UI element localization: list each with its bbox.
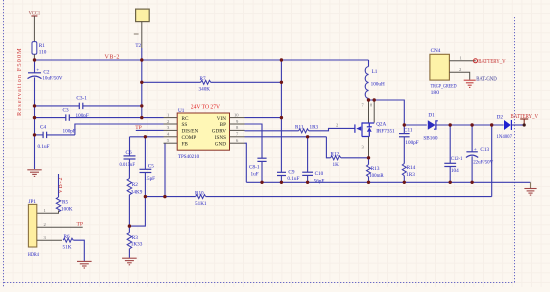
capacitor C11 xyxy=(399,125,419,164)
svg-text:R14: R14 xyxy=(407,165,416,171)
resistor R12 xyxy=(326,137,368,168)
U1 pins left 1-5 xyxy=(164,118,178,144)
svg-text:GND: GND xyxy=(215,141,226,147)
svg-text:BP: BP xyxy=(220,122,226,128)
svg-text:C4: C4 xyxy=(40,124,46,130)
resistor R1 xyxy=(32,42,47,60)
diode D1 SB160 xyxy=(404,113,503,142)
svg-text:HDR4: HDR4 xyxy=(28,252,39,258)
inductor L1 xyxy=(365,60,385,100)
wire pin7 ISNS xyxy=(245,136,327,138)
svg-text:+: + xyxy=(474,147,477,153)
svg-text:TP: TP xyxy=(135,125,142,131)
resistor R14 xyxy=(402,164,415,183)
svg-text:D2: D2 xyxy=(497,114,504,120)
capacitor C12-1 xyxy=(444,125,462,182)
svg-text:T2: T2 xyxy=(135,43,141,49)
svg-text:RC: RC xyxy=(182,116,189,122)
resistor R6 xyxy=(63,234,85,261)
sheet border dotted bottom xyxy=(4,282,515,284)
svg-text:R3: R3 xyxy=(132,235,138,241)
svg-text:180: 180 xyxy=(431,90,440,96)
ground rail end symbol xyxy=(524,182,536,195)
svg-text:CN4: CN4 xyxy=(431,48,441,54)
capacitor C10 xyxy=(302,137,324,185)
capacitor C2 xyxy=(28,60,63,106)
svg-text:51K1: 51K1 xyxy=(195,201,207,207)
svg-text:TRGP_GREED: TRGP_GREED xyxy=(431,83,457,89)
svg-text:1R3: 1R3 xyxy=(406,172,415,178)
svg-text:C5: C5 xyxy=(148,163,154,169)
wire switch node row xyxy=(369,100,405,125)
svg-text:COMP: COMP xyxy=(182,135,197,141)
resistor R5 xyxy=(37,174,73,213)
svg-text:R5: R5 xyxy=(62,200,68,206)
svg-text:51K: 51K xyxy=(63,244,72,250)
capacitor C3 xyxy=(35,108,164,135)
wire VB-2 horizontal xyxy=(35,59,369,61)
svg-text:34K9: 34K9 xyxy=(131,189,143,195)
svg-text:1R3: 1R3 xyxy=(310,125,319,131)
svg-text:0.1uF: 0.1uF xyxy=(38,144,50,150)
svg-text:10uF/50V: 10uF/50V xyxy=(42,76,62,82)
svg-text:Reservation F500M: Reservation F500M xyxy=(16,47,23,116)
svg-text:L1: L1 xyxy=(372,69,378,75)
wire ground rail xyxy=(246,181,530,183)
wire COMP pin4 xyxy=(130,136,164,138)
resistor R13 xyxy=(367,158,385,183)
svg-text:10: 10 xyxy=(234,112,239,117)
svg-text:100pF: 100pF xyxy=(63,128,76,134)
wire pin10 VIN xyxy=(245,117,282,119)
ground BAT-GND under CN4 xyxy=(464,80,476,87)
wire FB row + resistor R10 xyxy=(145,190,491,206)
svg-text:C12-1: C12-1 xyxy=(451,156,463,162)
capacitor C6 xyxy=(120,137,136,179)
svg-text:22uF/50V: 22uF/50V xyxy=(473,159,493,165)
svg-text:R1: R1 xyxy=(39,43,45,49)
capacitor C9 xyxy=(277,169,299,182)
svg-text:100uH: 100uH xyxy=(371,81,385,87)
svg-text:+: + xyxy=(36,68,39,74)
svg-text:56pF: 56pF xyxy=(314,178,325,184)
svg-text:1K33: 1K33 xyxy=(131,242,143,248)
svg-text:SS: SS xyxy=(182,122,188,128)
svg-text:340K: 340K xyxy=(199,87,211,93)
svg-text:GDRV: GDRV xyxy=(212,129,227,135)
svg-text:FB: FB xyxy=(182,141,189,147)
svg-text:VIN: VIN xyxy=(217,116,226,122)
wire pin9 BP to C8-1 xyxy=(245,124,263,158)
svg-text:U1: U1 xyxy=(178,108,185,114)
svg-text:0.015uF: 0.015uF xyxy=(120,162,136,168)
svg-text:SB160: SB160 xyxy=(423,135,438,141)
ground below R3 xyxy=(122,258,137,265)
svg-text:C13: C13 xyxy=(480,147,489,153)
svg-text:VB-2: VB-2 xyxy=(105,55,120,61)
resistor R7 xyxy=(142,76,282,93)
capacitor C3-1 xyxy=(35,95,142,118)
svg-text:C11: C11 xyxy=(404,128,413,134)
svg-text:JP1: JP1 xyxy=(29,199,37,205)
svg-text:R12: R12 xyxy=(331,151,340,157)
wire VIN vertical xyxy=(280,60,282,172)
resistor R2 xyxy=(127,179,143,227)
power port VCC1 xyxy=(29,11,41,42)
capacitor C13 electrolytic xyxy=(466,125,493,182)
svg-text:104: 104 xyxy=(451,168,459,174)
svg-text:Q2A: Q2A xyxy=(376,122,386,128)
power port BATTERY_V circle at CN4 xyxy=(474,59,507,65)
resistor R3 xyxy=(127,226,143,258)
op-amp U1 TPS40210 body xyxy=(177,104,229,160)
svg-text:IRF7351: IRF7351 xyxy=(376,128,395,134)
U1 pins right 10-6 xyxy=(230,118,245,144)
svg-text:1N4007: 1N4007 xyxy=(497,134,513,140)
diode D2 1N4007 xyxy=(497,114,525,140)
svg-text:BATTERY_V: BATTERY_V xyxy=(511,114,539,120)
svg-text:1K: 1K xyxy=(333,162,340,168)
connector CN4 xyxy=(430,48,476,96)
wire pin8 GDRV + resistor R11 xyxy=(245,123,355,133)
svg-text:ISNS: ISNS xyxy=(215,135,226,141)
connector JP1 xyxy=(28,199,83,258)
ground below R6 xyxy=(77,261,92,268)
svg-text:C8-1: C8-1 xyxy=(249,164,260,170)
svg-text:R13: R13 xyxy=(371,166,380,172)
wire feedback vertical xyxy=(491,125,493,197)
capacitor C8-1 xyxy=(249,158,267,182)
svg-text:BATTERY_V: BATTERY_V xyxy=(478,59,506,65)
capacitor C4 xyxy=(35,124,75,150)
svg-text:TPS40210: TPS40210 xyxy=(178,154,200,160)
wire pin3 stub xyxy=(136,129,164,131)
svg-text:D1: D1 xyxy=(428,113,435,119)
svg-text:100pF: 100pF xyxy=(405,140,418,146)
svg-text:DIS/EN: DIS/EN xyxy=(182,129,199,135)
wire elbow C5/R2 to R3 xyxy=(129,197,145,227)
connector T2 box xyxy=(134,9,149,49)
svg-text:15pF: 15pF xyxy=(144,176,155,182)
svg-text:C10: C10 xyxy=(315,171,324,177)
svg-text:100K: 100K xyxy=(61,206,73,212)
svg-text:110: 110 xyxy=(39,50,47,56)
power port BATTERY_V bar xyxy=(511,114,539,126)
sheet border dotted right xyxy=(514,17,516,283)
wire C4 to pin2 xyxy=(75,124,164,135)
svg-text:R10: R10 xyxy=(195,190,204,196)
svg-text:C3-1: C3-1 xyxy=(76,95,87,101)
svg-text:C6: C6 xyxy=(126,150,132,156)
wire left rail lower xyxy=(34,106,36,169)
wire T2 vertical xyxy=(141,48,143,118)
wire pin6 GND to ground rail xyxy=(245,143,247,182)
ground left rail xyxy=(27,170,41,177)
svg-text:0.1uF: 0.1uF xyxy=(287,176,299,182)
svg-text:R2: R2 xyxy=(132,182,138,188)
svg-text:TP: TP xyxy=(77,222,84,228)
svg-text:C9: C9 xyxy=(288,169,294,175)
transistor Q2A IRF7351 xyxy=(355,100,395,158)
svg-text:1uF: 1uF xyxy=(251,171,259,177)
wire FB vertical xyxy=(164,143,166,196)
svg-text:BAT-GND: BAT-GND xyxy=(476,76,497,82)
svg-text:R6: R6 xyxy=(64,234,70,240)
capacitor C5 xyxy=(140,137,156,197)
svg-text:24V TO 27V: 24V TO 27V xyxy=(191,104,221,110)
svg-text:C3: C3 xyxy=(63,108,69,114)
svg-text:100mR: 100mR xyxy=(369,173,384,179)
svg-text:C2: C2 xyxy=(43,69,49,75)
svg-text:R7: R7 xyxy=(200,76,206,82)
sheet border dotted left xyxy=(3,0,5,287)
svg-text:R11: R11 xyxy=(295,125,304,131)
